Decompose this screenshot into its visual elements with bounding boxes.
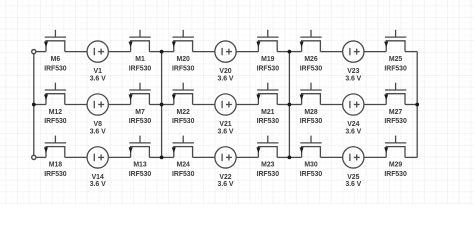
svg-text:M27: M27 <box>389 109 403 116</box>
svg-text:V23: V23 <box>347 68 359 75</box>
svg-text:M25: M25 <box>389 56 403 63</box>
svg-text:M30: M30 <box>304 162 318 169</box>
svg-text:3.6 V: 3.6 V <box>345 128 361 135</box>
svg-text:M18: M18 <box>49 162 63 169</box>
svg-text:V8: V8 <box>94 121 103 128</box>
svg-text:3.6 V: 3.6 V <box>345 75 361 82</box>
svg-text:M24: M24 <box>177 162 191 169</box>
svg-text:M28: M28 <box>304 109 318 116</box>
svg-text:IRF530: IRF530 <box>257 171 280 178</box>
svg-text:IRF530: IRF530 <box>172 65 195 72</box>
svg-text:M20: M20 <box>177 56 191 63</box>
svg-text:M26: M26 <box>304 56 318 63</box>
svg-text:IRF530: IRF530 <box>384 65 407 72</box>
svg-text:IRF530: IRF530 <box>44 118 67 125</box>
svg-text:IRF530: IRF530 <box>300 171 323 178</box>
svg-text:IRF530: IRF530 <box>129 171 152 178</box>
svg-text:M21: M21 <box>261 109 275 116</box>
svg-text:3.6 V: 3.6 V <box>218 75 234 82</box>
svg-text:M23: M23 <box>261 162 275 169</box>
svg-text:V14: V14 <box>92 174 104 181</box>
svg-text:M29: M29 <box>389 162 403 169</box>
svg-text:M19: M19 <box>261 56 275 63</box>
svg-text:V1: V1 <box>94 68 103 75</box>
svg-text:M1: M1 <box>135 56 145 63</box>
svg-text:IRF530: IRF530 <box>172 171 195 178</box>
svg-text:M6: M6 <box>51 56 61 63</box>
svg-text:3.6 V: 3.6 V <box>90 75 106 82</box>
svg-text:IRF530: IRF530 <box>44 171 67 178</box>
svg-text:IRF530: IRF530 <box>300 65 323 72</box>
svg-text:IRF530: IRF530 <box>172 118 195 125</box>
svg-text:3.6 V: 3.6 V <box>90 181 106 188</box>
svg-text:IRF530: IRF530 <box>384 118 407 125</box>
svg-text:V20: V20 <box>219 68 231 75</box>
svg-text:V21: V21 <box>219 121 231 128</box>
svg-text:V25: V25 <box>347 174 359 181</box>
svg-text:M22: M22 <box>177 109 191 116</box>
svg-text:IRF530: IRF530 <box>44 65 67 72</box>
svg-text:V22: V22 <box>219 174 231 181</box>
svg-text:IRF530: IRF530 <box>129 65 152 72</box>
svg-text:IRF530: IRF530 <box>384 171 407 178</box>
svg-text:IRF530: IRF530 <box>300 118 323 125</box>
svg-text:M12: M12 <box>49 109 63 116</box>
svg-text:3.6 V: 3.6 V <box>218 181 234 188</box>
svg-text:3.6 V: 3.6 V <box>90 128 106 135</box>
svg-text:V24: V24 <box>347 121 359 128</box>
svg-text:3.6 V: 3.6 V <box>218 128 234 135</box>
svg-text:M7: M7 <box>135 109 145 116</box>
svg-text:IRF530: IRF530 <box>129 118 152 125</box>
svg-text:M13: M13 <box>133 162 147 169</box>
svg-text:IRF530: IRF530 <box>257 118 280 125</box>
svg-text:3.6 V: 3.6 V <box>345 181 361 188</box>
svg-text:IRF530: IRF530 <box>257 65 280 72</box>
